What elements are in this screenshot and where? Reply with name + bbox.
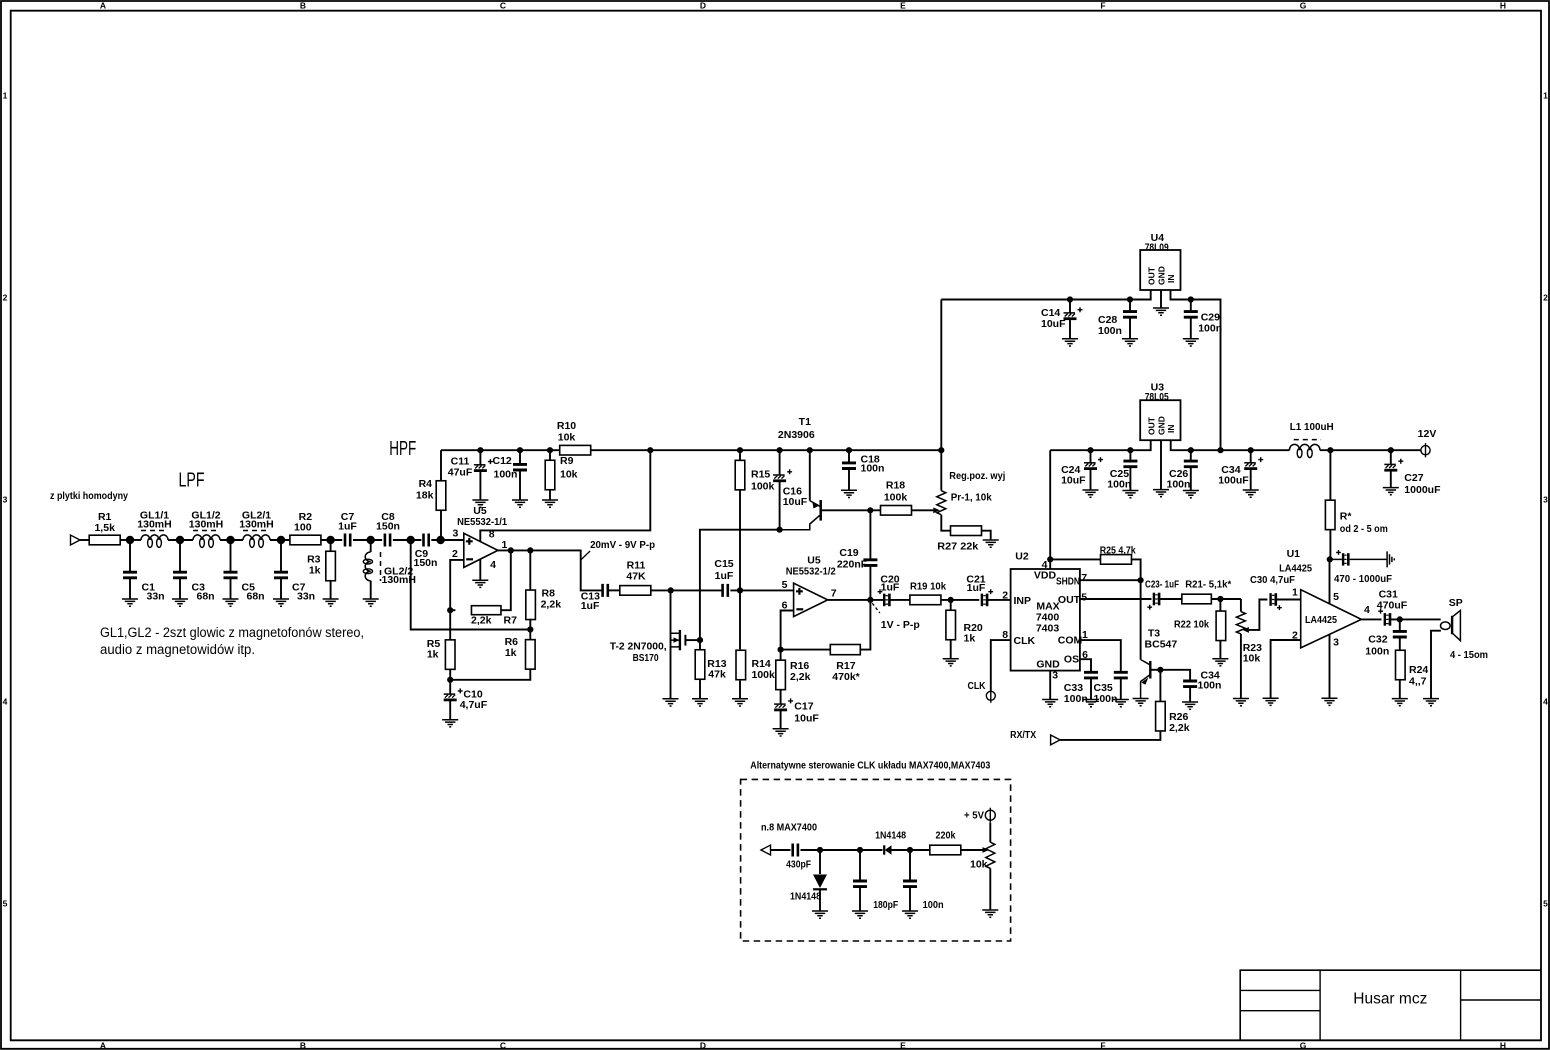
node xyxy=(1087,447,1093,453)
wire +9V rail left xyxy=(441,449,560,451)
svg-text:4: 4 xyxy=(3,697,8,707)
ground xyxy=(1183,491,1199,498)
ground xyxy=(1133,699,1149,706)
node xyxy=(857,847,863,853)
diode 1N4148 shunt xyxy=(819,850,821,874)
svg-text:R25 4,7k: R25 4,7k xyxy=(1100,545,1136,557)
capacitor C27 1000uF xyxy=(1390,450,1392,464)
input arrow RX/TX xyxy=(1051,735,1061,745)
inductor GL2/1 xyxy=(243,535,270,540)
svg-text:C23- 1uF: C23- 1uF xyxy=(1145,579,1179,591)
svg-text:100n: 100n xyxy=(1107,479,1131,491)
node xyxy=(1188,296,1194,302)
svg-text:GL1,GL2 - 2szt glowic z magnet: GL1,GL2 - 2szt glowic z magnetofonów ste… xyxy=(100,625,364,640)
wire xyxy=(168,539,193,541)
svg-text:VDD: VDD xyxy=(1034,570,1057,582)
svg-text:B: B xyxy=(300,1041,306,1050)
node xyxy=(436,536,444,544)
node xyxy=(1127,296,1133,302)
svg-text:C19: C19 xyxy=(839,547,858,559)
resistor R15 xyxy=(739,450,741,460)
resistor R6 xyxy=(529,630,531,640)
svg-text:2,2k: 2,2k xyxy=(471,615,492,627)
wire xyxy=(1211,598,1241,600)
ground xyxy=(223,599,239,606)
svg-text:T-2 2N7000,: T-2 2N7000, xyxy=(610,641,667,653)
svg-text:10uF: 10uF xyxy=(1061,475,1086,487)
svg-text:100: 100 xyxy=(294,522,312,534)
resistor R20 xyxy=(950,600,952,610)
dashed box xyxy=(741,779,1011,941)
resistor R18 xyxy=(870,509,880,511)
resistor R2 xyxy=(290,535,321,545)
svg-text:C30 4,7uF: C30 4,7uF xyxy=(1250,574,1296,586)
resistor R24 4,7 xyxy=(1396,650,1406,680)
svg-text:130mH: 130mH xyxy=(239,519,273,531)
ground xyxy=(852,911,868,918)
node xyxy=(1067,296,1073,302)
wire opamp2 output xyxy=(828,599,883,601)
svg-text:R10: R10 xyxy=(557,420,576,432)
wire xyxy=(220,539,243,541)
title block xyxy=(1240,970,1541,1040)
capacitor C8 series 150n xyxy=(385,534,390,547)
svg-text:470k*: 470k* xyxy=(832,671,860,683)
capacitor C10 4,7uF xyxy=(449,680,451,694)
svg-text:130mH: 130mH xyxy=(137,519,171,531)
resistor R16 xyxy=(780,650,782,661)
svg-text:4 - 15om: 4 - 15om xyxy=(1450,649,1488,661)
ground xyxy=(1423,699,1439,706)
node xyxy=(277,536,285,544)
wire pin2 ground xyxy=(1271,640,1301,698)
ground xyxy=(273,599,289,606)
capacitor C17 10uF xyxy=(774,703,786,705)
svg-text:47k: 47k xyxy=(708,669,726,681)
svg-text:33n: 33n xyxy=(297,591,315,603)
resistor R* od 2-5 om xyxy=(1329,450,1331,499)
node xyxy=(777,447,783,453)
wire xyxy=(771,849,791,851)
op-amp U1 LA4425 xyxy=(1301,590,1362,648)
resistor R3 xyxy=(330,540,332,551)
svg-text:4,,7: 4,,7 xyxy=(1409,676,1427,688)
node xyxy=(938,447,944,453)
svg-text:10uF: 10uF xyxy=(783,496,808,508)
ground xyxy=(1083,490,1099,497)
ground xyxy=(472,580,488,587)
svg-text:SHDN: SHDN xyxy=(1056,575,1080,587)
ground xyxy=(982,910,998,917)
svg-text:+ 5V: + 5V xyxy=(964,810,984,822)
capacitor C1 shunt xyxy=(129,540,131,571)
svg-text:G: G xyxy=(1300,1,1307,11)
svg-text:100n: 100n xyxy=(1198,323,1222,335)
svg-text:Alternatywne sterowanie CLK uk: Alternatywne sterowanie CLK układu MAX74… xyxy=(750,760,990,772)
svg-text:5: 5 xyxy=(782,579,788,591)
ground xyxy=(172,599,188,606)
wire 9V riser to U4 xyxy=(940,300,942,451)
resistor R14 xyxy=(739,590,741,649)
svg-text:1uF: 1uF xyxy=(581,600,600,612)
capacitor C28 100n xyxy=(1129,300,1131,311)
svg-text:1uF: 1uF xyxy=(967,582,986,594)
svg-text:A: A xyxy=(100,1041,106,1050)
ground xyxy=(542,500,558,507)
wire T3 base xyxy=(1150,669,1160,671)
svg-text:130mH: 130mH xyxy=(189,519,223,531)
ground xyxy=(1263,698,1279,705)
resistor R5 xyxy=(449,610,451,640)
capacitor C24 10uF xyxy=(1090,450,1092,462)
op-amp U5 NE5532-1/1 xyxy=(464,533,498,567)
ground xyxy=(472,500,488,507)
wire xyxy=(651,589,722,591)
capacitor C7 shunt xyxy=(280,540,282,571)
wire to INP xyxy=(987,599,1010,601)
svg-text:LPF: LPF xyxy=(179,470,205,492)
svg-text:HPF: HPF xyxy=(389,438,416,460)
node xyxy=(1327,556,1333,562)
capacitor C32 100n xyxy=(1399,619,1401,630)
svg-text:B: B xyxy=(300,1,306,11)
svg-text:33n: 33n xyxy=(147,591,165,603)
wire output pin4 xyxy=(1361,618,1381,620)
capacitor C12 100n xyxy=(519,450,521,463)
wire xyxy=(393,539,422,541)
resistor R7 xyxy=(450,609,455,611)
svg-text:CLK: CLK xyxy=(1014,635,1036,647)
svg-text:68n: 68n xyxy=(247,591,265,603)
wire xyxy=(431,539,464,541)
capacitor C18 100n xyxy=(848,450,850,462)
svg-text:U2: U2 xyxy=(1015,551,1029,563)
ground xyxy=(1153,490,1169,497)
wire pin8 supply xyxy=(480,450,650,541)
svg-text:LA4425: LA4425 xyxy=(1305,614,1337,626)
ground xyxy=(442,720,458,727)
capacitor C26 100n xyxy=(1190,450,1192,460)
node xyxy=(737,587,743,593)
svg-text:2: 2 xyxy=(1002,590,1008,602)
svg-text:D: D xyxy=(700,1041,706,1050)
node xyxy=(1217,596,1223,602)
wire xyxy=(1320,449,1421,451)
wire base to C34 xyxy=(1160,670,1190,680)
capacitor C11 47uF xyxy=(479,450,481,464)
ground xyxy=(1042,700,1058,707)
node xyxy=(1327,447,1333,453)
svg-text:7403: 7403 xyxy=(1036,623,1060,635)
node xyxy=(1248,447,1254,453)
svg-text:4,7uF: 4,7uF xyxy=(460,699,488,711)
input arrow n.8 xyxy=(761,845,771,855)
capacitor C30 4,7uF xyxy=(1269,593,1271,606)
IC U2 MAX7400/7403 xyxy=(1011,569,1080,671)
wire T3 collector riser xyxy=(1140,580,1142,659)
wire xyxy=(270,539,290,541)
svg-text:5: 5 xyxy=(1081,592,1087,604)
svg-text:100n: 100n xyxy=(923,899,944,911)
wire xyxy=(941,599,979,601)
svg-text:OUT: OUT xyxy=(1146,416,1156,435)
node xyxy=(647,447,653,453)
ground xyxy=(1183,339,1199,346)
svg-text:L1 100uH: L1 100uH xyxy=(1290,421,1334,433)
capacitor C14 10uF xyxy=(1069,300,1071,313)
svg-text:3: 3 xyxy=(452,528,458,540)
svg-text:2,2k: 2,2k xyxy=(541,599,562,611)
svg-text:OS: OS xyxy=(1064,653,1079,665)
svg-text:10k: 10k xyxy=(560,469,578,481)
terminal CLK xyxy=(986,691,995,700)
svg-text:180pF: 180pF xyxy=(873,899,898,911)
resistor R25 4,7k xyxy=(1050,558,1101,560)
wire U3 OUT 5V rail xyxy=(1050,440,1151,450)
svg-text:10k: 10k xyxy=(558,432,576,444)
svg-text:1N4148: 1N4148 xyxy=(790,891,821,903)
svg-text:F: F xyxy=(1100,1,1105,11)
svg-text:68n: 68n xyxy=(197,591,215,603)
ground xyxy=(1122,491,1138,498)
svg-text:3: 3 xyxy=(1333,637,1339,649)
node xyxy=(867,597,873,603)
capacitor 430pF xyxy=(793,844,798,857)
potentiometer 10k xyxy=(989,823,991,843)
wire xyxy=(1390,618,1440,620)
svg-text:12V: 12V xyxy=(1418,428,1437,440)
capacitor C15 1uF xyxy=(723,584,728,597)
svg-text:G: G xyxy=(1300,1041,1307,1050)
resistor R21 5,1k xyxy=(1182,594,1212,604)
capacitor C31 470uF xyxy=(1384,613,1386,626)
svg-text:R19 10k: R19 10k xyxy=(910,581,946,593)
ground sideways xyxy=(1387,551,1394,567)
ground xyxy=(732,699,748,706)
svg-text:IN: IN xyxy=(1166,275,1176,284)
wire xyxy=(321,539,342,541)
ground xyxy=(1322,698,1338,705)
wire SHDN xyxy=(1080,579,1141,581)
wire R4 riser xyxy=(440,450,442,481)
node xyxy=(508,547,514,553)
inductor GL2/2 xyxy=(370,540,372,552)
svg-text:GND: GND xyxy=(1156,266,1166,285)
svg-text:5: 5 xyxy=(1333,591,1339,603)
svg-text:F: F xyxy=(1100,1041,1105,1050)
node xyxy=(1217,447,1223,453)
svg-text:470 - 1000uF: 470 - 1000uF xyxy=(1334,573,1393,585)
svg-text:R15: R15 xyxy=(751,469,770,481)
capacitor C34 100uF xyxy=(1250,450,1252,462)
ground xyxy=(1243,490,1259,497)
svg-text:1k: 1k xyxy=(964,633,976,645)
resistor R9 xyxy=(549,450,551,460)
svg-text:1uF: 1uF xyxy=(338,521,357,533)
wire U4 IN xyxy=(1171,290,1221,450)
svg-text:100k: 100k xyxy=(752,669,776,681)
svg-text:4: 4 xyxy=(1543,697,1548,707)
svg-text:100uF: 100uF xyxy=(1218,475,1249,487)
svg-text:1: 1 xyxy=(501,539,507,551)
ground xyxy=(363,599,379,606)
node xyxy=(807,447,813,453)
svg-text:1uF: 1uF xyxy=(881,582,900,594)
svg-text:2: 2 xyxy=(3,293,8,303)
transistor T-2 2N7000/BS170 xyxy=(670,590,672,698)
ground xyxy=(692,699,708,706)
resistor R19 xyxy=(910,595,941,605)
svg-text:SP: SP xyxy=(1449,597,1463,609)
svg-text:1000uF: 1000uF xyxy=(1404,484,1441,496)
IC U3 78L05 xyxy=(1140,400,1180,440)
svg-text:47uF: 47uF xyxy=(448,467,473,479)
wire collector to gate node xyxy=(700,530,780,640)
wire pin3 ground xyxy=(1329,634,1331,698)
capacitor C23 1uF xyxy=(1153,593,1155,606)
node xyxy=(367,536,375,544)
label 1V - P-p xyxy=(872,603,880,613)
capacitor 470-1000uF xyxy=(1342,553,1344,565)
capacitor C29 100n xyxy=(1190,300,1192,311)
svg-text:A: A xyxy=(100,1,106,11)
input arrow xyxy=(71,535,81,545)
ground xyxy=(1083,700,1099,707)
wire pin5 supply xyxy=(1329,559,1331,604)
svg-text:C12: C12 xyxy=(493,455,512,467)
capacitor C16 10uF xyxy=(779,450,781,475)
svg-text:10uF: 10uF xyxy=(794,713,819,725)
diode 1N4148 series xyxy=(860,849,883,851)
capacitor C3 shunt xyxy=(179,540,181,571)
node xyxy=(948,597,954,603)
svg-text:1: 1 xyxy=(3,91,8,101)
wire xyxy=(890,599,911,601)
svg-text:10k: 10k xyxy=(1243,653,1261,665)
svg-text:U1: U1 xyxy=(1287,548,1301,560)
node xyxy=(126,536,134,544)
svg-text:LA4425: LA4425 xyxy=(1279,563,1312,575)
node xyxy=(477,447,483,453)
svg-text:D: D xyxy=(700,1,706,11)
svg-text:4: 4 xyxy=(1042,559,1048,571)
wire OUT xyxy=(1080,598,1152,600)
IC U4 78L09 xyxy=(1140,250,1180,290)
ground xyxy=(1062,339,1078,346)
resistor R11 xyxy=(620,586,651,596)
wire pin2 feedback xyxy=(450,560,464,610)
ground xyxy=(1233,699,1249,706)
ground xyxy=(512,500,528,507)
node xyxy=(1388,447,1394,453)
ground xyxy=(1122,339,1138,346)
capacitor C33 100n xyxy=(1084,672,1098,678)
ground xyxy=(323,599,339,606)
svg-text:1uF: 1uF xyxy=(715,570,734,582)
svg-text:C: C xyxy=(500,1041,506,1050)
node xyxy=(527,626,533,632)
node xyxy=(447,607,453,613)
ground xyxy=(122,599,138,606)
wire CLK xyxy=(991,640,1011,691)
wire OS xyxy=(1080,659,1091,671)
ground xyxy=(943,659,959,666)
ground xyxy=(663,699,679,706)
svg-text:n.8 MAX7400: n.8 MAX7400 xyxy=(761,822,817,834)
potentiometer R23 10k xyxy=(1240,599,1242,612)
node xyxy=(1188,447,1194,453)
wire wiper arrow xyxy=(983,847,990,853)
speaker SP xyxy=(1441,622,1451,630)
resistor R27 22k xyxy=(941,515,950,531)
svg-text:1k: 1k xyxy=(309,565,321,577)
node xyxy=(1127,447,1133,453)
node xyxy=(517,447,523,453)
svg-text:10k: 10k xyxy=(970,859,988,871)
capacitor C34 100n xyxy=(1183,681,1197,687)
svg-text:T1: T1 xyxy=(799,416,811,428)
svg-text:E: E xyxy=(900,1041,906,1050)
svg-text:2: 2 xyxy=(1543,293,1548,303)
label 20mV - 9V P-p xyxy=(581,551,590,560)
wire xyxy=(730,589,793,591)
capacitor C25 100n xyxy=(1129,450,1131,460)
capacitor C35 100n xyxy=(1114,672,1128,678)
inductor GL1/1 xyxy=(141,535,168,540)
ground xyxy=(1392,699,1408,706)
svg-text:H: H xyxy=(1500,1,1506,11)
wire R23 wiper xyxy=(1249,600,1268,630)
svg-text:C: C xyxy=(500,1,506,11)
terminal 12V xyxy=(1421,446,1430,455)
node xyxy=(527,547,533,553)
wire U3 IN 12V rail xyxy=(1171,440,1290,450)
svg-text:BS170: BS170 xyxy=(633,652,659,664)
svg-text:78L09: 78L09 xyxy=(1145,242,1169,254)
svg-text:4: 4 xyxy=(1364,604,1370,616)
node xyxy=(1047,556,1053,562)
resistor R22 10k xyxy=(1219,599,1221,611)
svg-text:220k: 220k xyxy=(936,829,956,841)
svg-text:150n: 150n xyxy=(376,521,400,533)
ground xyxy=(812,911,828,918)
capacitor C21 1uF xyxy=(981,594,983,607)
wire xyxy=(1159,598,1181,600)
wire COM xyxy=(1080,640,1121,671)
capacitor C19 220nF xyxy=(869,510,871,558)
resistor R17 feedback xyxy=(781,649,831,651)
wire +9V rail right xyxy=(591,449,942,451)
ground xyxy=(1383,488,1399,495)
wire U4 GND xyxy=(1160,290,1162,308)
resistor R8 xyxy=(529,550,531,590)
svg-text:1k: 1k xyxy=(505,647,517,659)
svg-text:audio z magnetowidów itp.: audio z magnetowidów itp. xyxy=(100,642,255,657)
resistor R10 xyxy=(560,445,591,455)
node xyxy=(547,447,553,453)
svg-text:3: 3 xyxy=(1543,495,1548,505)
svg-text:R7: R7 xyxy=(504,615,518,627)
wire xyxy=(801,849,861,851)
svg-text:C27: C27 xyxy=(1404,472,1423,484)
node xyxy=(697,637,703,643)
svg-text:2,2k: 2,2k xyxy=(790,671,811,683)
svg-text:CLK: CLK xyxy=(968,680,986,692)
capacitor C9 series 150n xyxy=(424,534,429,547)
svg-text:150n: 150n xyxy=(414,557,438,569)
svg-text:3: 3 xyxy=(1052,670,1058,682)
node xyxy=(176,536,184,544)
